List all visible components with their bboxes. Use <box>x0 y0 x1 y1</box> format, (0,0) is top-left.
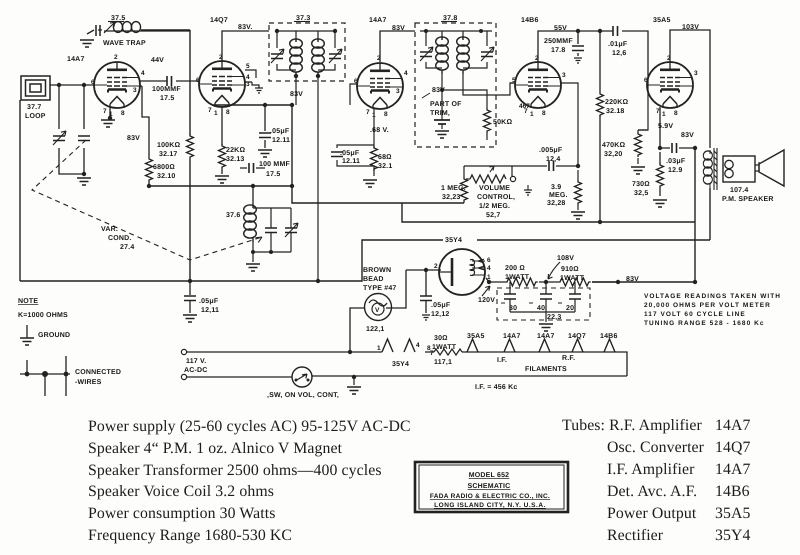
svg-text:1: 1 <box>530 111 534 118</box>
svg-text:Power Output: Power Output <box>607 505 697 522</box>
svg-text:1WATT: 1WATT <box>505 274 530 281</box>
svg-text:12,12: 12,12 <box>431 311 450 318</box>
svg-text:1/2 MEG.: 1/2 MEG. <box>479 202 510 210</box>
svg-text:7: 7 <box>103 108 107 115</box>
svg-text:I.F. = 456 Kс: I.F. = 456 Kс <box>475 384 517 391</box>
svg-text:TUNING RANGE 528 - 1680 Kс: TUNING RANGE 528 - 1680 Kс <box>644 320 765 327</box>
svg-text:37.7: 37.7 <box>27 104 41 111</box>
svg-text:32.1: 32.1 <box>378 163 392 170</box>
svg-text:VOLTAGE READINGS TAKEN WITH: VOLTAGE READINGS TAKEN WITH <box>644 293 781 300</box>
svg-text:,SW, ON VOL, CONT,: ,SW, ON VOL, CONT, <box>267 392 339 399</box>
svg-text:I.F. Amplifier: I.F. Amplifier <box>607 461 695 478</box>
svg-text:117 V.: 117 V. <box>186 358 206 365</box>
svg-text:BROWN: BROWN <box>363 267 391 274</box>
svg-text:WAVE TRAP: WAVE TRAP <box>103 40 146 47</box>
svg-text:220KΩ: 220KΩ <box>605 99 629 106</box>
svg-text:3: 3 <box>396 88 400 95</box>
svg-text:32.18: 32.18 <box>606 108 625 115</box>
svg-text:MEG.: MEG. <box>549 192 568 199</box>
svg-text:7: 7 <box>656 108 660 115</box>
svg-text:3.9: 3.9 <box>551 184 561 191</box>
svg-text:50KΩ: 50KΩ <box>493 119 512 126</box>
svg-text:83V: 83V <box>290 91 303 98</box>
svg-text:4: 4 <box>404 70 408 77</box>
svg-text:4: 4 <box>246 74 250 81</box>
svg-text:Speaker Transformer 2500 ohms—: Speaker Transformer 2500 ohms—400 cycles <box>88 462 382 479</box>
svg-text:17.5: 17.5 <box>160 95 174 102</box>
svg-text:FADA RADIO & ELECTRIC CO., INC: FADA RADIO & ELECTRIC CO., INC. <box>430 493 550 500</box>
svg-text:83V: 83V <box>432 87 445 94</box>
svg-text:14A7: 14A7 <box>537 333 555 340</box>
svg-text:8: 8 <box>384 111 388 118</box>
svg-text:32.13: 32.13 <box>226 156 245 163</box>
svg-text:22KΩ: 22KΩ <box>226 147 245 154</box>
svg-text:6800Ω: 6800Ω <box>153 164 175 171</box>
svg-text:35A5: 35A5 <box>715 505 751 522</box>
svg-text:32.17: 32.17 <box>159 151 178 158</box>
svg-text:35Y4: 35Y4 <box>445 237 462 244</box>
svg-text:Det. Avc. A.F.: Det. Avc. A.F. <box>607 483 697 500</box>
svg-text:14A7: 14A7 <box>503 333 521 340</box>
svg-text:AC-DC: AC-DC <box>184 367 208 374</box>
svg-text:83V: 83V <box>392 25 405 32</box>
svg-text:2: 2 <box>535 55 539 62</box>
svg-text:107.4: 107.4 <box>730 187 749 194</box>
svg-text:12.9: 12.9 <box>668 167 682 174</box>
svg-text:83V: 83V <box>626 276 639 283</box>
svg-text:14A7: 14A7 <box>369 17 387 24</box>
svg-text:1: 1 <box>214 110 218 117</box>
svg-text:122,1: 122,1 <box>366 326 385 333</box>
svg-text:12.11: 12.11 <box>342 158 360 165</box>
svg-text:.68 V.: .68 V. <box>370 127 389 134</box>
svg-text:103V: 103V <box>682 24 699 31</box>
svg-text:8: 8 <box>542 110 546 117</box>
svg-text:1: 1 <box>377 345 381 352</box>
svg-text:470KΩ: 470KΩ <box>602 142 626 149</box>
svg-text:V: V <box>375 307 380 314</box>
svg-text:250MMF: 250MMF <box>544 38 573 45</box>
svg-text:14Q7: 14Q7 <box>210 17 228 24</box>
svg-text:117 VOLT 60 CYCLE LINE: 117 VOLT 60 CYCLE LINE <box>644 311 746 318</box>
svg-text:MODEL 652: MODEL 652 <box>469 472 510 479</box>
svg-text:32.10: 32.10 <box>157 173 176 180</box>
svg-text:.05μF: .05μF <box>270 128 290 135</box>
svg-text:14B6: 14B6 <box>521 17 539 24</box>
svg-text:32,20: 32,20 <box>604 151 623 158</box>
svg-text:Power supply (25-60 cycles AC): Power supply (25-60 cycles AC) 95-125V A… <box>88 418 411 435</box>
svg-text:1: 1 <box>372 112 376 119</box>
svg-text:2: 2 <box>667 55 671 62</box>
svg-text:5: 5 <box>246 63 250 70</box>
svg-text:1: 1 <box>662 111 666 118</box>
svg-text:BEAD: BEAD <box>363 276 384 283</box>
svg-text:K=1000 OHMS: K=1000 OHMS <box>18 312 68 319</box>
svg-text:COND.: COND. <box>108 235 132 242</box>
svg-text:14A7: 14A7 <box>67 56 85 63</box>
svg-text:35Y4: 35Y4 <box>392 361 409 368</box>
svg-text:R.F.: R.F. <box>562 355 575 362</box>
svg-text:7: 7 <box>524 108 528 115</box>
svg-text:40: 40 <box>537 305 545 312</box>
svg-text:3: 3 <box>246 81 250 88</box>
svg-text:30Ω: 30Ω <box>434 335 448 342</box>
svg-text:35A5: 35A5 <box>467 333 485 340</box>
svg-text:14A7: 14A7 <box>715 417 751 434</box>
svg-text:27.4: 27.4 <box>120 244 134 251</box>
svg-text:8: 8 <box>226 109 230 116</box>
svg-text:35Y4: 35Y4 <box>715 527 751 544</box>
svg-text:8: 8 <box>674 110 678 117</box>
svg-text:100 MMF: 100 MMF <box>259 161 290 168</box>
svg-text:4: 4 <box>416 342 420 349</box>
svg-text:32,5: 32,5 <box>634 190 648 197</box>
svg-text:Frequency Range 1680-530 KC: Frequency Range 1680-530 KC <box>88 527 292 544</box>
svg-text:37.6: 37.6 <box>226 212 240 219</box>
svg-text:83V: 83V <box>681 132 694 139</box>
svg-text:14Q7: 14Q7 <box>568 333 586 340</box>
svg-text:2: 2 <box>219 54 223 61</box>
svg-text:14B6: 14B6 <box>715 483 750 500</box>
svg-text:8: 8 <box>427 345 431 352</box>
svg-text:GROUND: GROUND <box>38 332 70 339</box>
svg-text:PART OF: PART OF <box>430 101 462 108</box>
svg-text:4: 4 <box>141 70 145 77</box>
svg-text:VOLUME: VOLUME <box>479 185 510 192</box>
svg-text:7: 7 <box>366 109 370 116</box>
svg-text:Tubes: R.F. Amplifier: Tubes: R.F. Amplifier <box>562 417 702 434</box>
svg-text:14A7: 14A7 <box>715 461 751 478</box>
svg-text:120V: 120V <box>478 297 495 304</box>
svg-text:730Ω: 730Ω <box>632 181 650 188</box>
svg-text:SCHEMATIC: SCHEMATIC <box>468 483 511 490</box>
svg-text:LONG ISLAND CITY, N.Y. U.S.A.: LONG ISLAND CITY, N.Y. U.S.A. <box>434 502 546 509</box>
svg-text:TYPE #47: TYPE #47 <box>363 285 397 292</box>
svg-text:910Ω: 910Ω <box>561 266 579 273</box>
svg-text:LOOP: LOOP <box>25 113 46 120</box>
svg-text:17.8: 17.8 <box>551 47 565 54</box>
svg-text:32,23: 32,23 <box>442 194 461 201</box>
svg-text:52,7: 52,7 <box>486 212 500 219</box>
svg-text:100KΩ: 100KΩ <box>157 142 181 149</box>
svg-text:14B6: 14B6 <box>600 333 618 340</box>
svg-text:6: 6 <box>487 257 491 264</box>
svg-text:I.F.: I.F. <box>497 357 507 364</box>
svg-text:-WIRES: -WIRES <box>75 379 102 386</box>
svg-text:.05μF: .05μF <box>431 302 451 309</box>
svg-text:VAR.: VAR. <box>101 226 118 233</box>
svg-text:FILAMENTS: FILAMENTS <box>525 366 567 373</box>
svg-text:20: 20 <box>566 305 574 312</box>
svg-text:CONTROL,: CONTROL, <box>477 194 515 201</box>
svg-text:5.9V: 5.9V <box>658 123 673 130</box>
svg-text:.005μF: .005μF <box>539 147 563 154</box>
svg-text:44V: 44V <box>151 57 164 64</box>
svg-text:68Ω: 68Ω <box>378 154 392 161</box>
svg-text:2: 2 <box>434 263 438 270</box>
svg-text:12,6: 12,6 <box>612 50 626 57</box>
svg-text:3: 3 <box>562 72 566 79</box>
svg-text:12.11: 12.11 <box>272 137 290 144</box>
svg-text:83V.: 83V. <box>238 24 253 31</box>
svg-text:TRIM,: TRIM, <box>430 110 450 117</box>
svg-text:14Q7: 14Q7 <box>715 439 751 456</box>
svg-text:1WATT: 1WATT <box>560 275 585 282</box>
svg-text:Power consumption 30 Watts: Power consumption 30 Watts <box>88 505 276 522</box>
svg-text:3: 3 <box>694 70 698 77</box>
svg-text:Speaker 4“ P.M. 1 oz. Alnico V: Speaker 4“ P.M. 1 oz. Alnico V Magnet <box>88 440 343 457</box>
svg-text:83V: 83V <box>127 135 140 142</box>
svg-text:108V: 108V <box>557 255 574 262</box>
svg-text:4: 4 <box>487 265 491 272</box>
svg-text:3: 3 <box>133 87 137 94</box>
svg-text:P.M. SPEAKER: P.M. SPEAKER <box>722 196 774 203</box>
svg-text:8: 8 <box>121 110 125 117</box>
svg-text:.01μF: .01μF <box>608 41 628 48</box>
svg-text:12,11: 12,11 <box>201 307 219 314</box>
svg-text:Osc. Converter: Osc. Converter <box>607 439 705 456</box>
svg-text:55V: 55V <box>554 25 567 32</box>
svg-text:2: 2 <box>377 55 381 62</box>
svg-text:22,3: 22,3 <box>547 314 561 321</box>
svg-text:35A5: 35A5 <box>653 17 671 24</box>
svg-text:.05μF: .05μF <box>340 150 360 157</box>
svg-text:100MMF: 100MMF <box>152 86 181 93</box>
svg-text:117,1: 117,1 <box>434 359 452 366</box>
svg-text:20,000 OHMS PER VOLT METER: 20,000 OHMS PER VOLT METER <box>644 302 771 309</box>
svg-text:Rectifier: Rectifier <box>607 527 664 544</box>
svg-text:Speaker Voice Coil 3.2 ohms: Speaker Voice Coil 3.2 ohms <box>88 483 274 500</box>
svg-text:200 Ω: 200 Ω <box>505 265 525 272</box>
svg-text:.03μF: .03μF <box>666 158 686 165</box>
svg-text:7: 7 <box>208 107 212 114</box>
svg-text:.05μF: .05μF <box>199 298 219 305</box>
svg-text:17.5: 17.5 <box>266 171 280 178</box>
svg-text:2: 2 <box>114 54 118 61</box>
svg-text:1: 1 <box>109 111 113 118</box>
svg-text:CONNECTED: CONNECTED <box>75 369 121 376</box>
svg-text:1 MEG.: 1 MEG. <box>441 185 466 192</box>
svg-text:32,28: 32,28 <box>547 200 566 207</box>
svg-text:NOTE: NOTE <box>18 298 38 305</box>
